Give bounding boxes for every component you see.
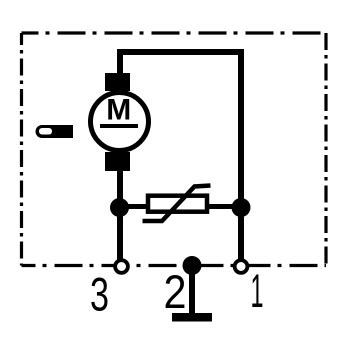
- motor M brush top: [105, 73, 130, 91]
- node A (junction dot left): [110, 198, 129, 217]
- terminal 2 (junction dot): [183, 256, 202, 275]
- component enclosure boundary (dash-dot box): [22, 33, 327, 266]
- svg-text:M: M: [106, 93, 131, 126]
- svg-text:3: 3: [90, 268, 109, 321]
- motor M1 body: [91, 93, 149, 151]
- motor underline: [100, 124, 138, 128]
- node B (junction dot right): [232, 198, 251, 217]
- terminal 1: [235, 260, 248, 273]
- thermistor diagonal stroke: [143, 186, 211, 222]
- ground bar: [172, 313, 212, 322]
- terminal 3: [115, 260, 128, 273]
- wire: node A to node B through resistor: [120, 204, 242, 209]
- motor M brush bottom: [105, 152, 130, 171]
- wire: motor top to terminal 1 (top loop): [120, 52, 241, 262]
- wire: motor bottom down to terminal 3: [117, 168, 123, 262]
- svg-text:2: 2: [164, 265, 187, 318]
- ground stem wire: [189, 266, 195, 317]
- connector plug symbol: [36, 125, 73, 138]
- svg-text:1: 1: [251, 264, 264, 317]
- resistor R (thermistor) body: [148, 196, 207, 212]
